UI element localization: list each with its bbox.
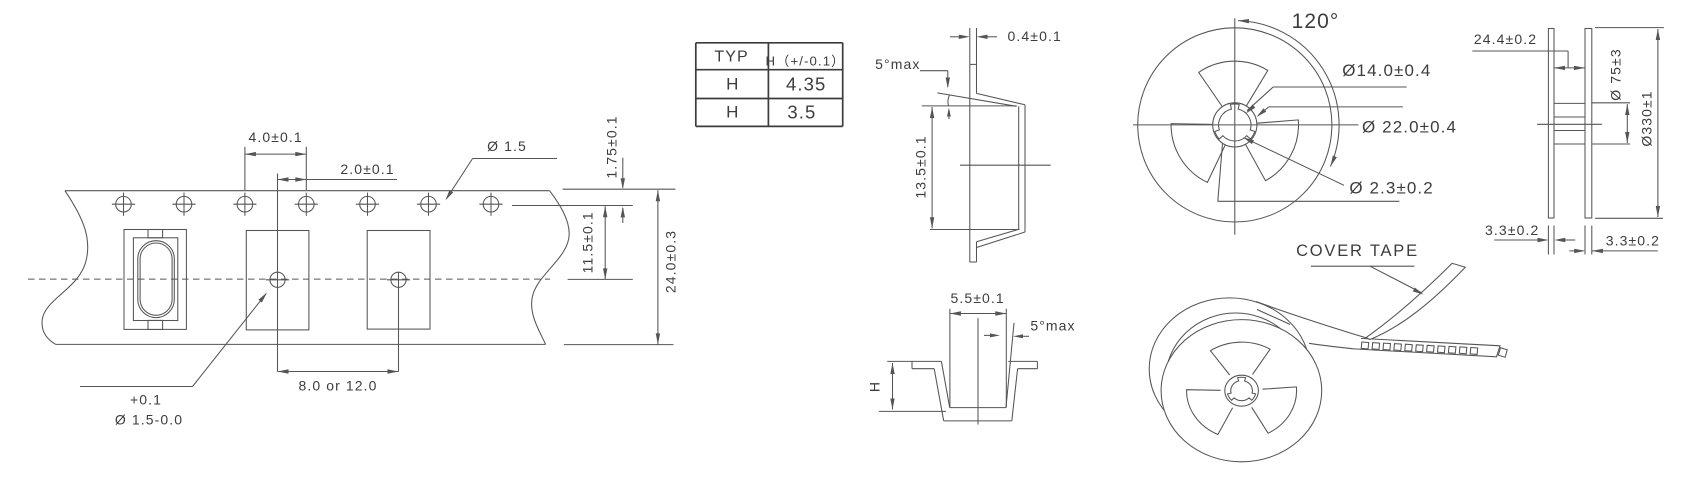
svg-text:120°: 120° — [1292, 10, 1340, 33]
svg-text:Ø 75±3: Ø 75±3 — [1607, 48, 1623, 100]
svg-text:H: H — [726, 103, 739, 122]
svg-text:H: H — [726, 75, 739, 94]
svg-text:Ø14.0±0.4: Ø14.0±0.4 — [1342, 61, 1431, 80]
svg-text:24.4±0.2: 24.4±0.2 — [1474, 31, 1537, 47]
svg-text:Ø 2.3±0.2: Ø 2.3±0.2 — [1349, 179, 1433, 198]
svg-text:13.5±0.1: 13.5±0.1 — [912, 135, 928, 198]
svg-text:0.4±0.1: 0.4±0.1 — [1008, 28, 1062, 44]
svg-text:3.3±0.2: 3.3±0.2 — [1606, 232, 1660, 248]
svg-text:Ø 22.0±0.4: Ø 22.0±0.4 — [1362, 118, 1457, 137]
svg-text:8.0 or 12.0: 8.0 or 12.0 — [298, 378, 377, 394]
svg-text:11.5±0.1: 11.5±0.1 — [580, 211, 596, 273]
svg-text:H: H — [867, 381, 883, 392]
svg-text:Ø 1.5: Ø 1.5 — [487, 138, 527, 154]
svg-text:24.0±0.3: 24.0±0.3 — [663, 230, 679, 293]
svg-text:+0.1: +0.1 — [130, 392, 162, 408]
svg-text:COVER TAPE: COVER TAPE — [1296, 242, 1419, 260]
svg-text:H（+/-0.1）: H（+/-0.1） — [766, 54, 846, 69]
svg-text:Ø330±1: Ø330±1 — [1638, 90, 1654, 146]
svg-text:2.0±0.1: 2.0±0.1 — [340, 161, 394, 177]
svg-text:Ø 1.5-0.0: Ø 1.5-0.0 — [115, 412, 183, 428]
svg-text:4.35: 4.35 — [786, 74, 826, 95]
svg-text:5.5±0.1: 5.5±0.1 — [950, 290, 1004, 306]
svg-text:5°max: 5°max — [1030, 318, 1075, 334]
svg-text:3.5: 3.5 — [787, 102, 816, 123]
svg-text:1.75±0.1: 1.75±0.1 — [603, 115, 619, 178]
svg-text:3.3±0.2: 3.3±0.2 — [1485, 222, 1539, 238]
svg-text:5°max: 5°max — [875, 56, 920, 72]
svg-text:TYP: TYP — [714, 49, 748, 66]
svg-text:4.0±0.1: 4.0±0.1 — [248, 129, 302, 145]
